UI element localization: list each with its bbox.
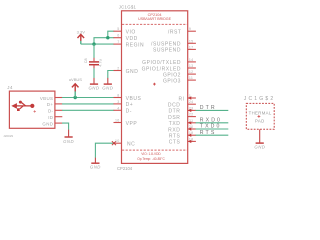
svg-text:14: 14 bbox=[189, 58, 194, 62]
capacitor C8 plates bbox=[89, 61, 99, 63]
svg-text:16: 16 bbox=[115, 119, 120, 123]
svg-text:RTS: RTS bbox=[200, 130, 217, 136]
svg-text:GND: GND bbox=[88, 85, 99, 90]
svg-text:4: 4 bbox=[117, 106, 119, 110]
svg-text:1: 1 bbox=[189, 94, 191, 98]
svg-text:RXD: RXD bbox=[168, 127, 180, 133]
thermal pad origin cross bbox=[258, 115, 261, 118]
svg-text:8: 8 bbox=[117, 94, 119, 98]
svg-text:REGIN: REGIN bbox=[126, 42, 145, 48]
svg-text:TXD: TXD bbox=[169, 121, 181, 127]
svg-text:24: 24 bbox=[189, 100, 194, 104]
svg-text:9: 9 bbox=[189, 27, 191, 31]
connector J4 pin stubs bbox=[55, 98, 62, 124]
wire net 3.3V to REGIN bbox=[81, 43, 114, 45]
svg-text:GND: GND bbox=[126, 69, 139, 75]
junction cap top bbox=[92, 42, 95, 45]
svg-text:NC: NC bbox=[127, 141, 135, 147]
svg-text:JC1G$1: JC1G$1 bbox=[119, 4, 137, 9]
IC bottom dashed separator bbox=[122, 149, 187, 151]
wire net VBUS bbox=[62, 97, 114, 99]
capacitor C8 top lead bbox=[93, 44, 95, 58]
svg-text:VIO: 1.8-VDD: VIO: 1.8-VDD bbox=[141, 152, 161, 156]
svg-text:3.3V: 3.3V bbox=[77, 30, 86, 35]
svg-text:D+: D+ bbox=[47, 102, 54, 107]
connector J4 origin cross bbox=[34, 110, 36, 112]
IC right pin stubs bbox=[188, 31, 196, 141]
wire net TXD0 bbox=[196, 128, 229, 130]
svg-text:VBUS: VBUS bbox=[126, 96, 142, 102]
ground symbol NC bbox=[90, 158, 101, 170]
IC top dashed separator bbox=[122, 23, 187, 25]
svg-text:2: 2 bbox=[117, 67, 119, 71]
svg-text:DCD: DCD bbox=[168, 103, 180, 109]
IC JC1G$1 CP2104 body bbox=[122, 11, 188, 164]
svg-text:5: 5 bbox=[117, 27, 119, 31]
svg-text:GND: GND bbox=[42, 121, 53, 126]
svg-text:J20029: J20029 bbox=[3, 134, 13, 138]
svg-text:17: 17 bbox=[189, 45, 194, 49]
svg-text:GND: GND bbox=[102, 85, 113, 90]
wire net RTS bbox=[196, 134, 229, 136]
wire net D+ bbox=[62, 103, 114, 105]
svg-text:GPIO3: GPIO3 bbox=[163, 78, 181, 84]
svg-text:CP2104: CP2104 bbox=[117, 166, 133, 171]
ground symbol pin2 bbox=[102, 78, 113, 91]
svg-text:DSR: DSR bbox=[168, 115, 180, 121]
svg-text:TXD0: TXD0 bbox=[200, 124, 222, 130]
svg-text:PAD: PAD bbox=[255, 118, 265, 123]
svg-text:JC1G$2: JC1G$2 bbox=[244, 96, 276, 102]
ground symbol cap bbox=[88, 78, 99, 91]
wire VDD branch bbox=[94, 38, 114, 44]
svg-text:D+: D+ bbox=[126, 102, 134, 108]
IC right pin names bbox=[142, 30, 185, 146]
svg-text:GPIO1/RXLED: GPIO1/RXLED bbox=[142, 66, 181, 72]
svg-text:13: 13 bbox=[189, 64, 194, 68]
svg-text:SUSPEND: SUSPEND bbox=[153, 48, 181, 54]
svg-text:Op.Temp: -40-85°C: Op.Temp: -40-85°C bbox=[137, 157, 165, 161]
IC left pin names bbox=[126, 30, 145, 148]
svg-text:/RST: /RST bbox=[168, 30, 182, 36]
IC origin cross bbox=[153, 83, 156, 86]
svg-text:ID: ID bbox=[48, 115, 53, 120]
svg-text:THERMAL: THERMAL bbox=[249, 111, 272, 116]
thermal pad pin wire bbox=[259, 129, 261, 142]
svg-text:DTR: DTR bbox=[200, 105, 217, 111]
supply arrow 3.3V bbox=[78, 34, 85, 44]
svg-text:12: 12 bbox=[189, 70, 194, 74]
svg-text:GND: GND bbox=[254, 145, 265, 150]
svg-text:6: 6 bbox=[117, 34, 119, 38]
svg-text:21: 21 bbox=[189, 119, 194, 123]
capacitor C8 bottom lead bbox=[93, 65, 95, 68]
svg-text:15: 15 bbox=[189, 39, 194, 43]
IC left pin stubs bbox=[114, 31, 122, 143]
ground symbol thermal bbox=[254, 143, 265, 150]
wire net D- bbox=[62, 109, 114, 111]
thermal pad JC1G$2 dashed body bbox=[246, 103, 274, 129]
svg-text:VIO: VIO bbox=[126, 30, 136, 36]
wire NC to ground bbox=[95, 143, 114, 158]
connector J4 USB receptacle body bbox=[9, 91, 55, 128]
svg-text:uVBUS: uVBUS bbox=[69, 77, 82, 82]
svg-text:3: 3 bbox=[117, 100, 119, 104]
svg-text:GND: GND bbox=[63, 139, 74, 144]
wire net DTR bbox=[196, 109, 229, 111]
NC pin no-connect cross bbox=[112, 141, 116, 145]
svg-text:10: 10 bbox=[115, 139, 120, 143]
svg-text:7: 7 bbox=[117, 40, 119, 44]
wire VIO branch bbox=[108, 31, 114, 38]
svg-text:19: 19 bbox=[189, 131, 194, 135]
svg-text:RXD0: RXD0 bbox=[200, 117, 222, 123]
svg-text:VDD: VDD bbox=[126, 36, 138, 42]
ground symbol usb bbox=[63, 130, 74, 144]
svg-text:GND: GND bbox=[90, 165, 101, 170]
svg-text:USB/UART BRIDGE: USB/UART BRIDGE bbox=[138, 17, 171, 21]
svg-text:VBUS: VBUS bbox=[40, 96, 54, 101]
IC right pin numbers bbox=[189, 27, 194, 141]
junction VDD/VIO bbox=[106, 36, 109, 39]
svg-text:D-: D- bbox=[126, 109, 132, 115]
svg-text:18: 18 bbox=[189, 137, 194, 141]
svg-text:RI: RI bbox=[178, 96, 184, 102]
svg-text:CTS: CTS bbox=[169, 140, 181, 146]
connector J4 pin names bbox=[40, 96, 54, 127]
IC left pin numbers bbox=[115, 27, 120, 143]
junction on VBUS bbox=[74, 96, 77, 99]
svg-text:4.7u: 4.7u bbox=[99, 59, 103, 66]
svg-text:J4: J4 bbox=[7, 85, 13, 90]
svg-text:GPIO0/TXLED: GPIO0/TXLED bbox=[142, 60, 181, 66]
svg-text:C8: C8 bbox=[84, 58, 88, 63]
wire net RXD0 bbox=[196, 122, 229, 124]
svg-text:11: 11 bbox=[189, 76, 193, 80]
supply arrow uVBUS bbox=[72, 84, 79, 98]
svg-text:22: 22 bbox=[189, 113, 194, 117]
USB trident icon bbox=[11, 101, 34, 111]
svg-text:VPP: VPP bbox=[126, 121, 138, 127]
wire usb GND bbox=[62, 123, 69, 130]
wire IC GND pin2 bbox=[108, 71, 114, 79]
svg-text:D-: D- bbox=[48, 109, 54, 114]
svg-text:20: 20 bbox=[189, 125, 194, 129]
svg-text:RTS: RTS bbox=[169, 134, 181, 140]
svg-text:23: 23 bbox=[189, 106, 194, 110]
svg-text:DTR: DTR bbox=[168, 109, 180, 115]
svg-text:/SUSPEND: /SUSPEND bbox=[151, 42, 181, 48]
IC right pin direction arrows bbox=[188, 96, 191, 143]
